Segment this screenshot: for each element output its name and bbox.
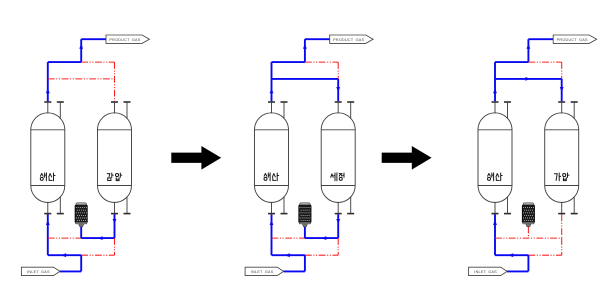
- silencer / vent filter (panel 2): [299, 203, 311, 238]
- wire inlet gas line from flag (panel 1): [60, 270, 81, 272]
- nozzle T3A top-center (panel 3): [492, 102, 499, 113]
- wire blowdown header left (idle) (panel 1): [48, 237, 81, 239]
- vessel T3A production column (panel 3): [478, 113, 512, 203]
- nozzle T2A top-right (panel 2): [281, 102, 288, 119]
- label 감압 on vessel T1B (panel 1): [107, 173, 122, 181]
- wire product header horizontal (panel 2): [272, 61, 305, 63]
- nozzle T2B bottom-right (panel 2): [347, 196, 354, 213]
- vessel T1B second column (panel 1): [98, 113, 132, 203]
- wire T-B top riser (idle) (panel 1): [114, 62, 116, 101]
- nozzle T3B top-center (panel 3): [558, 102, 565, 113]
- wire inlet riser (panel 3): [527, 255, 529, 271]
- wire blowdown header right (active) (panel 1): [81, 236, 114, 240]
- wire bottom cross connector (idle) (panel 3): [561, 238, 563, 255]
- wire feed header left (active) (panel 3): [495, 253, 528, 257]
- label 생산 on vessel T1A (panel 1): [40, 173, 55, 181]
- flag INLET GAS (panel 2): [245, 267, 284, 275]
- label 가압 on vessel T3B (panel 3): [555, 173, 570, 181]
- wire blowdown header right (active) (panel 2): [305, 236, 338, 240]
- nozzle T2A top-center (panel 2): [268, 102, 275, 113]
- svg-text:PRODUCT GAS: PRODUCT GAS: [557, 38, 588, 42]
- vessel T1A production column (panel 1): [31, 113, 65, 203]
- wire inlet riser (panel 1): [80, 255, 82, 271]
- nozzle T3B top-right (panel 3): [571, 102, 578, 119]
- wire equalization header right segment (idle) (panel 2): [305, 61, 338, 63]
- wire product header horizontal (panel 3): [495, 61, 528, 63]
- label 세정 on vessel T2B (panel 2): [331, 173, 344, 181]
- process step arrow 1: [171, 146, 221, 170]
- wire blowdown header left (idle) (panel 2): [272, 237, 305, 239]
- flag PRODUCT GAS (panel 2): [330, 35, 373, 43]
- wire bottom cross connector (idle) (panel 2): [337, 238, 339, 255]
- wire feed header right (idle) (panel 2): [305, 254, 338, 256]
- process step arrow 2: [382, 146, 432, 170]
- silencer / vent filter (panel 1): [75, 203, 87, 238]
- wire feed riser T-A bottom (panel 1): [46, 214, 50, 255]
- nozzle T2A bottom-right (panel 2): [281, 196, 288, 213]
- nozzle T2A bottom-center (panel 2): [268, 202, 275, 214]
- wire feed header right (idle) (panel 3): [528, 254, 561, 256]
- wire bottom cross connector (idle) (panel 1): [114, 238, 116, 255]
- nozzle T1B top-center (panel 1): [111, 102, 118, 113]
- nozzle T1A bottom-right (panel 1): [57, 196, 64, 213]
- nozzle T3A bottom-center (panel 3): [492, 202, 499, 214]
- nozzle T1B bottom-right (panel 1): [124, 196, 131, 213]
- nozzle T1A bottom-center (panel 1): [44, 202, 51, 214]
- flag PRODUCT GAS (panel 1): [106, 35, 149, 43]
- nozzle T2B top-right (panel 2): [347, 102, 354, 119]
- wire feed header right (idle) (panel 1): [81, 254, 114, 256]
- vessel T2B second column (panel 2): [321, 113, 355, 203]
- nozzle T3A bottom-right (panel 3): [504, 196, 511, 213]
- flag INLET GAS (panel 3): [469, 267, 508, 275]
- nozzle T3A top-right (panel 3): [504, 102, 511, 119]
- svg-text:INLET GAS: INLET GAS: [27, 270, 50, 274]
- wire T-B top riser upper (idle) (panel 3): [561, 62, 563, 79]
- wire product gas line to flag (panel 2): [305, 38, 330, 40]
- nozzle T2B top-center (panel 2): [335, 102, 342, 113]
- vessel T2A production column (panel 2): [255, 113, 289, 203]
- nozzle T3B bottom-center (panel 3): [558, 202, 565, 214]
- wire T-B bottom riser (blowdown out) (panel 1): [113, 214, 117, 238]
- label 생산 on vessel T2A (panel 2): [264, 173, 279, 181]
- wire T-B top riser (active, into vessel) (panel 3): [560, 79, 564, 101]
- wire product header horizontal (panel 1): [48, 61, 81, 63]
- wire equalization header right segment (idle) (panel 3): [528, 61, 561, 63]
- svg-text:INLET GAS: INLET GAS: [474, 270, 497, 274]
- wire product takeoff riser (panel 2): [303, 39, 307, 62]
- nozzle T1A top-right (panel 1): [57, 102, 64, 119]
- wire purge header (idle) (panel 1): [48, 78, 115, 80]
- wire inlet riser (panel 2): [304, 255, 306, 271]
- wire product takeoff riser (panel 1): [79, 39, 83, 62]
- wire product riser T-A top (panel 2): [270, 62, 274, 101]
- svg-text:PRODUCT GAS: PRODUCT GAS: [109, 38, 140, 42]
- wire product riser T-A top (panel 3): [493, 62, 497, 101]
- wire product gas line to flag (panel 1): [81, 38, 106, 40]
- wire product takeoff riser (panel 3): [527, 39, 531, 62]
- wire inlet gas line from flag (panel 3): [507, 270, 528, 272]
- nozzle T1B bottom-center (panel 1): [111, 202, 118, 214]
- wire T-B top riser (active, into vessel) (panel 2): [336, 79, 340, 101]
- vessel T3B second column (panel 3): [545, 113, 579, 203]
- nozzle T1B top-right (panel 1): [124, 102, 131, 119]
- wire blowdown header (idle) (panel 3): [495, 237, 562, 239]
- wire equalization header right segment (idle) (panel 1): [81, 61, 114, 63]
- nozzle T3B bottom-right (panel 3): [571, 196, 578, 213]
- svg-text:INLET GAS: INLET GAS: [251, 270, 274, 274]
- wire T-B top riser upper (idle) (panel 2): [337, 62, 339, 79]
- wire product riser T-A top (panel 1): [46, 62, 50, 101]
- wire feed header left (active) (panel 2): [272, 253, 305, 257]
- label 생산 on vessel T3A (panel 3): [488, 173, 503, 181]
- flag PRODUCT GAS (panel 3): [553, 35, 596, 43]
- wire T-B bottom riser (idle) (panel 3): [561, 214, 563, 238]
- wire feed riser T-A bottom (panel 2): [270, 214, 274, 255]
- nozzle T2B bottom-center (panel 2): [335, 202, 342, 214]
- wire purge header (active) (panel 3): [495, 78, 562, 80]
- flow arrow on purge header (panel 3): [525, 77, 530, 81]
- wire T-B bottom riser (blowdown out) (panel 2): [336, 214, 340, 238]
- silencer / vent filter (panel 3): [522, 203, 534, 238]
- svg-text:PRODUCT GAS: PRODUCT GAS: [333, 38, 364, 42]
- wire feed riser T-A bottom (panel 3): [493, 214, 497, 255]
- wire inlet gas line from flag (panel 2): [284, 270, 305, 272]
- wire purge header (active) (panel 2): [272, 78, 339, 80]
- flag INLET GAS (panel 1): [21, 267, 60, 275]
- nozzle T1A top-center (panel 1): [44, 102, 51, 113]
- wire product gas line to flag (panel 3): [528, 38, 553, 40]
- wire feed header left (active) (panel 1): [48, 253, 81, 257]
